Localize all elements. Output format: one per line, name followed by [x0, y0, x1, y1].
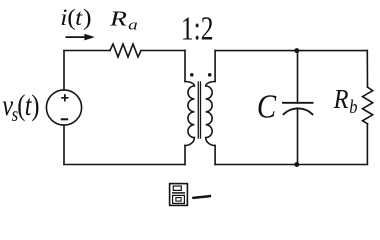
- wire: primary top-left segment: [64, 50, 110, 52]
- svg-text:1:2: 1:2: [181, 9, 214, 48]
- wire: secondary top: [215, 50, 367, 52]
- node: capacitor bottom junction: [294, 162, 299, 167]
- svg-text:R: R: [109, 7, 127, 30]
- wire: capacitor bottom lead: [297, 108, 299, 164]
- label C: [257, 87, 277, 125]
- node: capacitor top junction: [294, 48, 299, 53]
- label i(t): [60, 5, 91, 31]
- wire: primary bottom: [64, 164, 185, 166]
- caption 圖一 glyph 圖: [170, 184, 188, 206]
- transformer core: [198, 82, 200, 138]
- voltage source VS circle: [46, 90, 81, 125]
- wire: transformer primary top lead: [184, 51, 186, 82]
- wire: left vertical below source: [63, 125, 65, 164]
- transformer dot secondary: [208, 73, 212, 77]
- current arrow head: [84, 34, 94, 41]
- wire: primary top-right segment: [141, 50, 185, 52]
- minus sign of source: [61, 118, 68, 120]
- resistor Rb: [363, 87, 373, 124]
- wire: transformer secondary top lead: [214, 51, 216, 82]
- label vs(t): [2, 89, 39, 127]
- transformer primary winding: [185, 82, 194, 146]
- wire: Rb bottom lead: [366, 124, 368, 165]
- caption 圖一 glyph 一: [193, 195, 211, 198]
- wire: left vertical above source: [63, 51, 65, 91]
- resistor Ra: [110, 44, 141, 57]
- wire: transformer secondary bottom lead: [214, 146, 216, 165]
- plus sign of source: [61, 94, 68, 101]
- capacitor C top plate: [283, 102, 313, 104]
- capacitor C curved plate: [284, 108, 313, 114]
- svg-text:R: R: [333, 83, 349, 114]
- svg-text:): ): [31, 89, 39, 122]
- svg-text:a: a: [128, 17, 138, 33]
- svg-text:): ): [83, 5, 92, 31]
- wire: capacitor top lead: [297, 51, 299, 103]
- transformer dot primary: [190, 73, 194, 77]
- wire: transformer primary bottom lead: [184, 146, 186, 165]
- label Ra: [109, 7, 138, 32]
- label 1:2: [181, 9, 214, 48]
- wire: Rb top lead: [366, 51, 368, 88]
- label Rb: [333, 83, 358, 117]
- svg-text:b: b: [349, 96, 357, 117]
- transformer secondary winding: [206, 82, 215, 146]
- wire: secondary bottom: [215, 164, 367, 166]
- current arrow i(t): [66, 36, 85, 38]
- svg-text:C: C: [257, 87, 277, 125]
